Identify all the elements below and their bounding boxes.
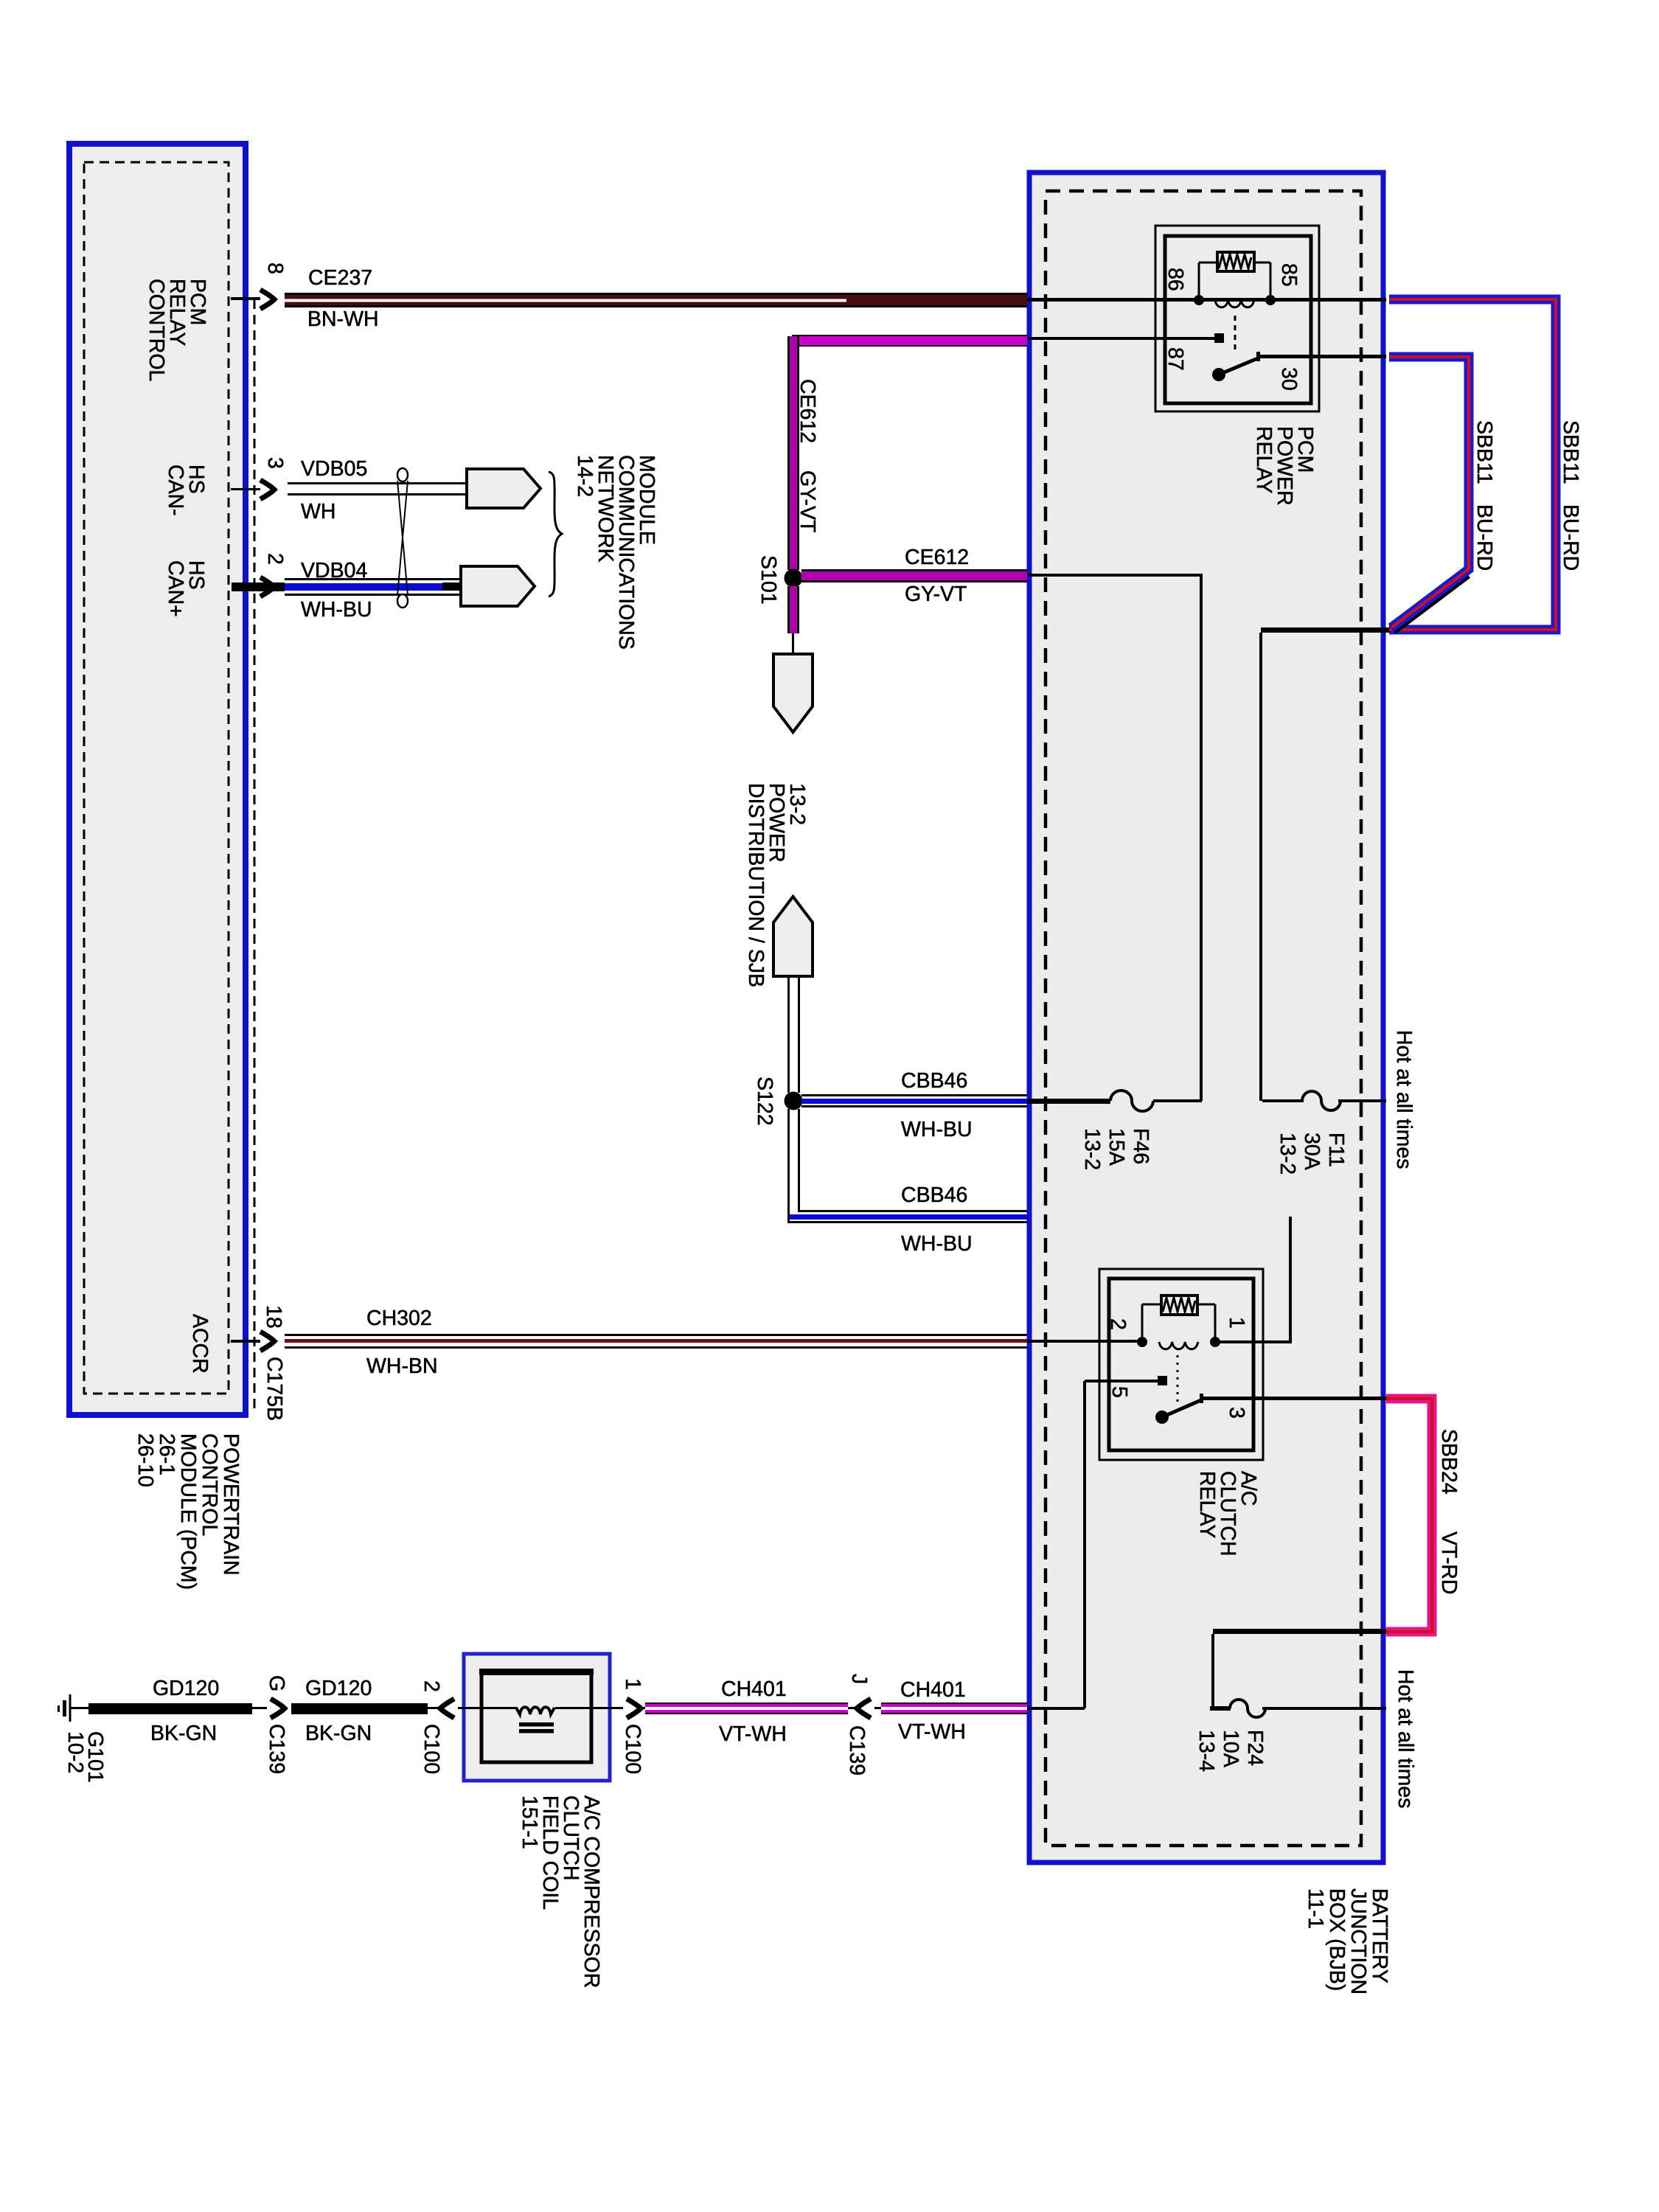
svg-text:VDB04: VDB04 <box>301 559 367 582</box>
svg-text:11-1: 11-1 <box>1304 1888 1327 1929</box>
svg-text:VT-RD: VT-RD <box>1437 1531 1461 1595</box>
svg-text:CH302: CH302 <box>366 1307 432 1330</box>
svg-text:S101: S101 <box>757 555 780 605</box>
svg-text:CBB46: CBB46 <box>901 1069 967 1093</box>
svg-text:Hot at all times: Hot at all times <box>1394 1669 1417 1808</box>
svg-text:86: 86 <box>1164 268 1187 291</box>
svg-text:CH401: CH401 <box>900 1678 966 1702</box>
svg-text:26-1: 26-1 <box>155 1433 178 1475</box>
svg-text:13-2: 13-2 <box>1080 1128 1104 1170</box>
svg-text:BU-RD: BU-RD <box>1472 504 1496 571</box>
svg-text:BN-WH: BN-WH <box>307 307 379 331</box>
svg-text:BU-RD: BU-RD <box>1559 504 1582 571</box>
svg-text:13-2: 13-2 <box>1276 1133 1299 1175</box>
svg-text:CE612: CE612 <box>905 546 969 569</box>
svg-text:1: 1 <box>1225 1317 1248 1329</box>
svg-text:30A: 30A <box>1300 1133 1324 1170</box>
svg-text:13-4: 13-4 <box>1194 1730 1218 1772</box>
svg-text:8: 8 <box>263 262 287 274</box>
svg-text:SBB24: SBB24 <box>1437 1429 1461 1495</box>
svg-text:VT-WH: VT-WH <box>719 1722 787 1746</box>
svg-text:BATTERY: BATTERY <box>1368 1888 1391 1983</box>
svg-text:C100: C100 <box>420 1724 443 1774</box>
svg-text:CE612: CE612 <box>796 379 819 443</box>
svg-text:2: 2 <box>420 1680 443 1692</box>
svg-text:WH-BU: WH-BU <box>901 1118 973 1141</box>
svg-text:C139: C139 <box>265 1724 288 1774</box>
svg-text:15A: 15A <box>1105 1128 1128 1166</box>
svg-text:2: 2 <box>1106 1318 1130 1330</box>
svg-text:BOX (BJB): BOX (BJB) <box>1325 1888 1349 1991</box>
svg-text:3: 3 <box>1225 1407 1248 1419</box>
svg-text:F11: F11 <box>1324 1133 1348 1167</box>
svg-text:Hot at all times: Hot at all times <box>1392 1030 1416 1169</box>
svg-text:C139: C139 <box>845 1725 869 1775</box>
svg-text:ACCR: ACCR <box>188 1314 212 1374</box>
svg-text:F24: F24 <box>1243 1730 1267 1766</box>
svg-text:DISTRIBUTION / SJB: DISTRIBUTION / SJB <box>744 783 768 987</box>
svg-text:GD120: GD120 <box>153 1677 219 1700</box>
svg-text:JUNCTION: JUNCTION <box>1346 1888 1370 1994</box>
svg-text:10-2: 10-2 <box>63 1731 87 1773</box>
svg-text:10A: 10A <box>1219 1730 1242 1767</box>
svg-text:VT-WH: VT-WH <box>898 1720 966 1744</box>
svg-text:RELAY: RELAY <box>1252 426 1276 493</box>
svg-text:18: 18 <box>262 1305 285 1329</box>
svg-text:1: 1 <box>621 1678 644 1690</box>
svg-text:30: 30 <box>1277 367 1301 391</box>
svg-text:POWERTRAIN: POWERTRAIN <box>219 1433 243 1576</box>
svg-text:MODULE (PCM): MODULE (PCM) <box>176 1433 200 1590</box>
svg-text:2: 2 <box>263 553 287 565</box>
svg-text:CAN+: CAN+ <box>164 560 187 617</box>
svg-text:F46: F46 <box>1129 1128 1152 1164</box>
svg-text:WH: WH <box>301 500 335 524</box>
svg-text:BK-GN: BK-GN <box>305 1722 372 1745</box>
svg-text:CONTROL: CONTROL <box>145 279 168 381</box>
svg-text:GD120: GD120 <box>305 1677 372 1700</box>
svg-text:S122: S122 <box>753 1077 776 1126</box>
svg-text:26-10: 26-10 <box>133 1433 157 1487</box>
svg-text:WH-BN: WH-BN <box>366 1354 438 1378</box>
svg-text:RELAY: RELAY <box>1195 1471 1219 1538</box>
svg-text:SBB11: SBB11 <box>1559 420 1582 484</box>
svg-text:SBB11: SBB11 <box>1472 420 1496 484</box>
svg-text:GY-VT: GY-VT <box>796 470 819 532</box>
svg-text:151-1: 151-1 <box>518 1795 541 1849</box>
svg-text:BK-GN: BK-GN <box>150 1722 217 1745</box>
svg-text:85: 85 <box>1277 263 1301 287</box>
svg-text:CE237: CE237 <box>308 266 372 290</box>
svg-text:G: G <box>265 1675 288 1691</box>
svg-text:WH-BU: WH-BU <box>901 1232 973 1256</box>
svg-text:CAN-: CAN- <box>164 465 187 516</box>
svg-text:3: 3 <box>263 457 287 469</box>
svg-text:CBB46: CBB46 <box>901 1183 967 1207</box>
svg-text:WH-BU: WH-BU <box>301 598 372 622</box>
svg-text:14-2: 14-2 <box>573 455 597 497</box>
svg-text:CONTROL: CONTROL <box>198 1433 221 1536</box>
svg-text:J: J <box>847 1674 871 1684</box>
svg-text:VDB05: VDB05 <box>301 457 367 481</box>
svg-text:5: 5 <box>1107 1386 1131 1398</box>
svg-text:CH401: CH401 <box>721 1677 787 1701</box>
svg-text:87: 87 <box>1164 347 1187 371</box>
svg-text:C100: C100 <box>621 1724 644 1774</box>
svg-text:C175B: C175B <box>262 1357 286 1421</box>
svg-text:GY-VT: GY-VT <box>905 582 967 606</box>
